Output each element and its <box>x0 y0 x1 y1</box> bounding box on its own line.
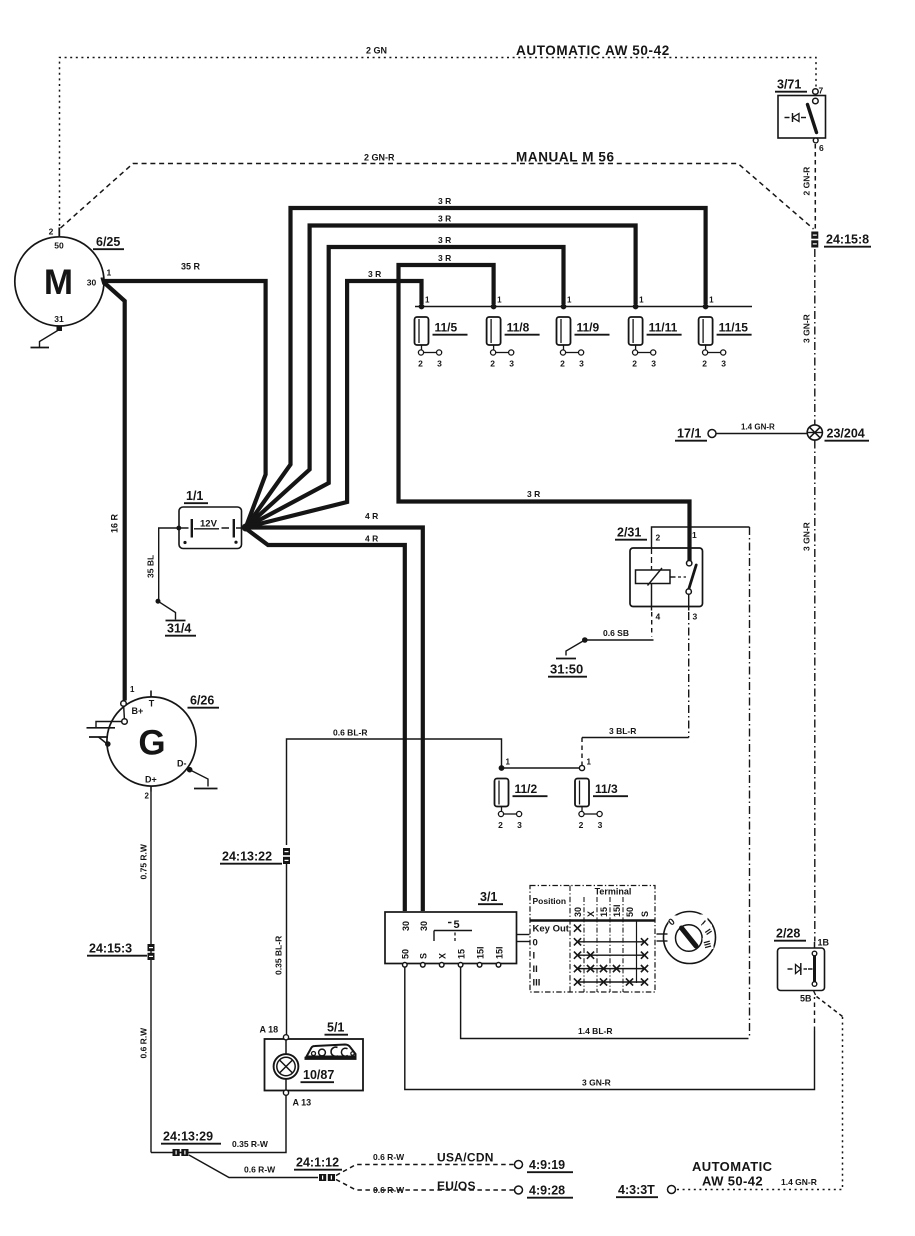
wire 0.75 R.W / 0.6 R.W from generator D+ down <box>150 792 152 1153</box>
ground at M pin 31 <box>40 330 59 347</box>
svg-text:Position: Position <box>533 896 567 906</box>
svg-text:1: 1 <box>130 685 135 694</box>
svg-text:11/11: 11/11 <box>649 321 678 335</box>
battery + node <box>242 524 250 532</box>
wire 2 GN dotted link to AUTOMATIC AW 50-42 <box>60 58 817 227</box>
svg-text:11/5: 11/5 <box>435 321 458 335</box>
svg-text:1.4 GN-R: 1.4 GN-R <box>781 1177 817 1187</box>
svg-text:3 R: 3 R <box>527 489 540 499</box>
fuse 11/9 <box>557 317 571 345</box>
fuse 11/15 <box>699 317 713 345</box>
svg-text:11/9: 11/9 <box>577 321 600 335</box>
wire 16 R from M pin 30 to generator pin 1 <box>104 283 125 701</box>
fuse 11/5 <box>415 317 429 345</box>
svg-text:1: 1 <box>587 758 592 767</box>
svg-text:3: 3 <box>721 359 726 369</box>
svg-text:AUTOMATIC: AUTOMATIC <box>692 1159 773 1174</box>
svg-text:24:15:8: 24:15:8 <box>826 233 869 247</box>
wire 2 GN-R dashed from 3/71 pin 6 to connector 24:15:8 <box>814 144 816 229</box>
svg-text:15: 15 <box>456 949 466 959</box>
svg-text:2/28: 2/28 <box>776 927 800 941</box>
svg-text:3 GN-R: 3 GN-R <box>802 522 812 551</box>
svg-text:6: 6 <box>819 143 824 153</box>
svg-text:X: X <box>586 911 596 917</box>
svg-text:0.6 R-W: 0.6 R-W <box>244 1165 276 1175</box>
svg-text:S: S <box>419 953 429 959</box>
connector 24:13:22 <box>283 848 290 855</box>
svg-text:11/2: 11/2 <box>515 782 538 796</box>
svg-text:M: M <box>44 263 73 302</box>
bulb 23/204 <box>807 425 822 440</box>
svg-text:III: III <box>533 978 541 989</box>
svg-text:2: 2 <box>702 359 707 369</box>
svg-text:24:13:22: 24:13:22 <box>222 850 272 864</box>
connector 24:15:3 <box>148 944 155 951</box>
svg-text:5B: 5B <box>800 994 812 1004</box>
svg-text:2: 2 <box>579 820 584 830</box>
svg-text:2/31: 2/31 <box>617 526 641 540</box>
svg-text:4 R: 4 R <box>365 511 378 521</box>
svg-text:23/204: 23/204 <box>827 427 865 441</box>
wire 0.6 SB and ground 31:50 <box>586 639 654 641</box>
svg-text:15: 15 <box>599 907 609 917</box>
connector 24:13:29 <box>173 1149 180 1156</box>
wire 3 R from fuse 11/8 to relay 2/31 pin 1 <box>399 265 690 561</box>
svg-text:5: 5 <box>454 919 460 931</box>
svg-text:3 BL-R: 3 BL-R <box>609 726 636 736</box>
svg-text:2: 2 <box>145 792 150 801</box>
svg-text:G: G <box>138 724 165 763</box>
wire from relay pin 2 up to 15 feed line <box>652 527 750 544</box>
svg-text:0.35 BL-R: 0.35 BL-R <box>274 936 284 975</box>
svg-text:7: 7 <box>819 86 824 96</box>
svg-text:3: 3 <box>509 359 514 369</box>
svg-text:1: 1 <box>497 296 502 305</box>
wire 0.6 R-W dashed branch EU/OS to 4:9:28 <box>336 1180 514 1191</box>
svg-text:24:15:3: 24:15:3 <box>89 942 132 956</box>
svg-text:1: 1 <box>692 530 697 540</box>
svg-text:3/71: 3/71 <box>777 78 801 92</box>
svg-text:0: 0 <box>533 937 538 948</box>
svg-text:30: 30 <box>573 907 583 917</box>
wire 0.35 BL-R from connector to lamp panel A18 <box>286 864 288 1035</box>
svg-text:B+: B+ <box>132 706 144 716</box>
wire 4 R upper from battery + to ignition switch 3/1 <box>246 528 423 912</box>
svg-text:17/1: 17/1 <box>677 427 701 441</box>
svg-text:3: 3 <box>651 359 656 369</box>
bulb 10/87 <box>285 1040 287 1054</box>
svg-text:1.4 BL-R: 1.4 BL-R <box>578 1026 612 1036</box>
svg-text:AW 50-42: AW 50-42 <box>702 1174 763 1189</box>
svg-text:A 13: A 13 <box>293 1098 312 1108</box>
connector 24:15:8 <box>811 232 818 239</box>
svg-text:X: X <box>438 953 448 959</box>
svg-text:12V: 12V <box>200 519 218 530</box>
svg-text:1/1: 1/1 <box>186 489 203 503</box>
wire 0.6 BL-R from fuse 11/2 to connector 24:13:22 <box>287 739 502 845</box>
svg-text:31/4: 31/4 <box>167 622 191 636</box>
svg-text:1B: 1B <box>818 938 830 948</box>
wire 3 R to fuse 11/11 <box>246 226 636 528</box>
svg-text:3: 3 <box>693 612 698 622</box>
battery 1/1 12V <box>179 507 242 549</box>
svg-text:D+: D+ <box>145 775 157 785</box>
svg-text:2: 2 <box>418 359 423 369</box>
wire 1.4 GN-R from 17/1 to 23/204 <box>716 433 807 435</box>
ignition switch 3/1 <box>385 912 517 964</box>
svg-text:2: 2 <box>656 533 661 543</box>
wire 3 R to fuse 11/9 <box>246 247 564 527</box>
wire 0.6 R-W dashed branch USA/CDN to 4:9:19 <box>336 1165 514 1176</box>
svg-text:2 GN-R: 2 GN-R <box>364 153 395 163</box>
ignition key symbol <box>664 912 716 964</box>
wire dashed from 2/28 pin 5B to AW 50-42 <box>817 997 843 1017</box>
svg-text:4:9:28: 4:9:28 <box>529 1184 565 1198</box>
svg-text:6/25: 6/25 <box>96 235 120 249</box>
wire 3 BL-R from relay pin 3 to fuse 11/3 <box>688 612 690 738</box>
svg-text:30: 30 <box>87 278 97 288</box>
svg-text:5/1: 5/1 <box>327 1021 344 1035</box>
svg-text:2: 2 <box>490 359 495 369</box>
svg-text:30: 30 <box>419 921 429 931</box>
starter motor M 6/25 <box>15 237 104 326</box>
fuse 11/3 <box>575 779 589 807</box>
svg-text:3: 3 <box>437 359 442 369</box>
svg-text:MANUAL M 56: MANUAL M 56 <box>516 150 615 165</box>
svg-text:24:13:29: 24:13:29 <box>163 1130 213 1144</box>
svg-text:3 R: 3 R <box>438 196 451 206</box>
svg-text:0.6 R-W: 0.6 R-W <box>373 1185 405 1195</box>
svg-text:3 R: 3 R <box>368 269 381 279</box>
wire 1.4 BL-R from pin 15 <box>461 967 749 1039</box>
wire 3 R to fuse 11/15 <box>246 208 706 527</box>
svg-text:3 R: 3 R <box>438 235 451 245</box>
svg-text:S: S <box>640 911 650 917</box>
svg-text:I: I <box>533 951 536 962</box>
relay 2/31 <box>630 548 703 607</box>
svg-text:15I: 15I <box>475 946 485 959</box>
connector 24:1:12 <box>319 1174 326 1181</box>
node 17/1 <box>708 430 716 438</box>
svg-text:16 R: 16 R <box>110 513 120 533</box>
svg-text:D-: D- <box>177 759 187 769</box>
wire 4 R lower from battery + to ignition switch 3/1 <box>246 529 405 912</box>
svg-text:2: 2 <box>498 820 503 830</box>
instrument cluster pictogram <box>307 1045 356 1057</box>
svg-text:Terminal: Terminal <box>595 887 632 897</box>
wire dash-dot to terminal 15 circuit <box>749 527 751 1039</box>
wire 3 GN-R from pin 50 to 2/28 pin 5B <box>405 967 815 1090</box>
svg-text:II: II <box>533 964 538 975</box>
fuse holder bus line <box>415 306 752 308</box>
svg-text:0.6 SB: 0.6 SB <box>603 628 629 638</box>
wire 3 R to fuse 11/5 <box>246 281 422 527</box>
svg-text:USA/CDN: USA/CDN <box>437 1151 494 1165</box>
svg-text:0.35 R-W: 0.35 R-W <box>232 1139 269 1149</box>
svg-text:3: 3 <box>598 820 603 830</box>
svg-text:1: 1 <box>639 296 644 305</box>
fuse 11/2 <box>495 779 509 807</box>
svg-text:50: 50 <box>54 241 64 251</box>
svg-text:3 R: 3 R <box>438 214 451 224</box>
svg-text:11/8: 11/8 <box>507 321 530 335</box>
svg-text:4: 4 <box>656 612 661 622</box>
wire 35 BL and ground 31/4 <box>159 528 177 600</box>
svg-text:4:3:3T: 4:3:3T <box>618 1183 655 1197</box>
svg-text:0.75 R.W: 0.75 R.W <box>139 843 149 879</box>
wire 0.35 R-W from A13 to connector 24:13:29 <box>151 1095 286 1152</box>
ground at generator B- <box>96 722 122 728</box>
svg-text:AUTOMATIC AW 50-42: AUTOMATIC AW 50-42 <box>516 43 670 58</box>
wire 2 GN-R dashed link to MANUAL M 56 <box>61 164 814 230</box>
fuse bus 11/2-11/3 <box>502 767 583 769</box>
svg-text:0.6 BL-R: 0.6 BL-R <box>333 728 367 738</box>
svg-text:35 BL: 35 BL <box>146 555 156 578</box>
svg-text:10/87: 10/87 <box>303 1068 334 1082</box>
instrument panel 5/1 <box>265 1039 364 1091</box>
svg-text:1: 1 <box>107 268 112 278</box>
svg-text:6/26: 6/26 <box>190 694 214 708</box>
svg-text:50: 50 <box>401 949 411 959</box>
svg-text:50: 50 <box>625 907 635 917</box>
fuse 11/11 <box>629 317 643 345</box>
svg-text:EU/OS: EU/OS <box>437 1179 476 1193</box>
svg-text:2: 2 <box>560 359 565 369</box>
svg-text:3: 3 <box>579 359 584 369</box>
generator G 6/26 <box>107 697 196 786</box>
svg-text:35 R: 35 R <box>181 262 201 272</box>
svg-text:11/3: 11/3 <box>595 782 618 796</box>
svg-text:30: 30 <box>401 921 411 931</box>
svg-text:0.6 R-W: 0.6 R-W <box>373 1152 405 1162</box>
svg-text:2: 2 <box>632 359 637 369</box>
svg-text:1: 1 <box>425 296 430 305</box>
svg-text:11/15: 11/15 <box>719 321 749 335</box>
svg-text:4:9:19: 4:9:19 <box>529 1158 565 1172</box>
wire 1.4 GN-R dotted to 4:3:3T <box>676 1017 843 1190</box>
svg-text:3 R: 3 R <box>438 253 451 263</box>
wire 3 GN-R dash-dot vertical (right side) <box>814 249 816 425</box>
wire 0.6 R-W to connector 24:1:12 <box>189 1155 318 1178</box>
svg-text:1: 1 <box>709 296 714 305</box>
svg-text:3 GN-R: 3 GN-R <box>802 314 812 343</box>
svg-text:3 GN-R: 3 GN-R <box>582 1078 611 1088</box>
svg-text:24:1:12: 24:1:12 <box>296 1156 339 1170</box>
svg-text:T: T <box>149 699 155 709</box>
svg-text:1: 1 <box>506 758 511 767</box>
svg-text:1: 1 <box>567 296 572 305</box>
wire 35 R from M pin 30 to battery + <box>103 281 266 527</box>
svg-text:15I: 15I <box>612 904 622 917</box>
svg-text:A 18: A 18 <box>260 1025 279 1035</box>
svg-text:Key Out: Key Out <box>533 924 570 935</box>
svg-text:0.6 R.W: 0.6 R.W <box>139 1027 149 1059</box>
svg-text:15I: 15I <box>494 946 504 959</box>
svg-text:31: 31 <box>54 314 64 324</box>
svg-text:4 R: 4 R <box>365 534 378 544</box>
svg-text:31:50: 31:50 <box>550 662 583 677</box>
svg-text:3/1: 3/1 <box>480 890 497 904</box>
svg-text:2 GN-R: 2 GN-R <box>802 167 812 196</box>
svg-text:2 GN: 2 GN <box>366 46 387 56</box>
svg-text:2: 2 <box>49 227 54 237</box>
switch 3/71 <box>778 96 826 139</box>
ignition switch position table <box>530 886 655 993</box>
svg-text:3: 3 <box>517 820 522 830</box>
fuse 11/8 <box>487 317 501 345</box>
interlock unit 2/28 <box>778 948 825 991</box>
svg-text:1.4 GN-R: 1.4 GN-R <box>741 423 775 432</box>
